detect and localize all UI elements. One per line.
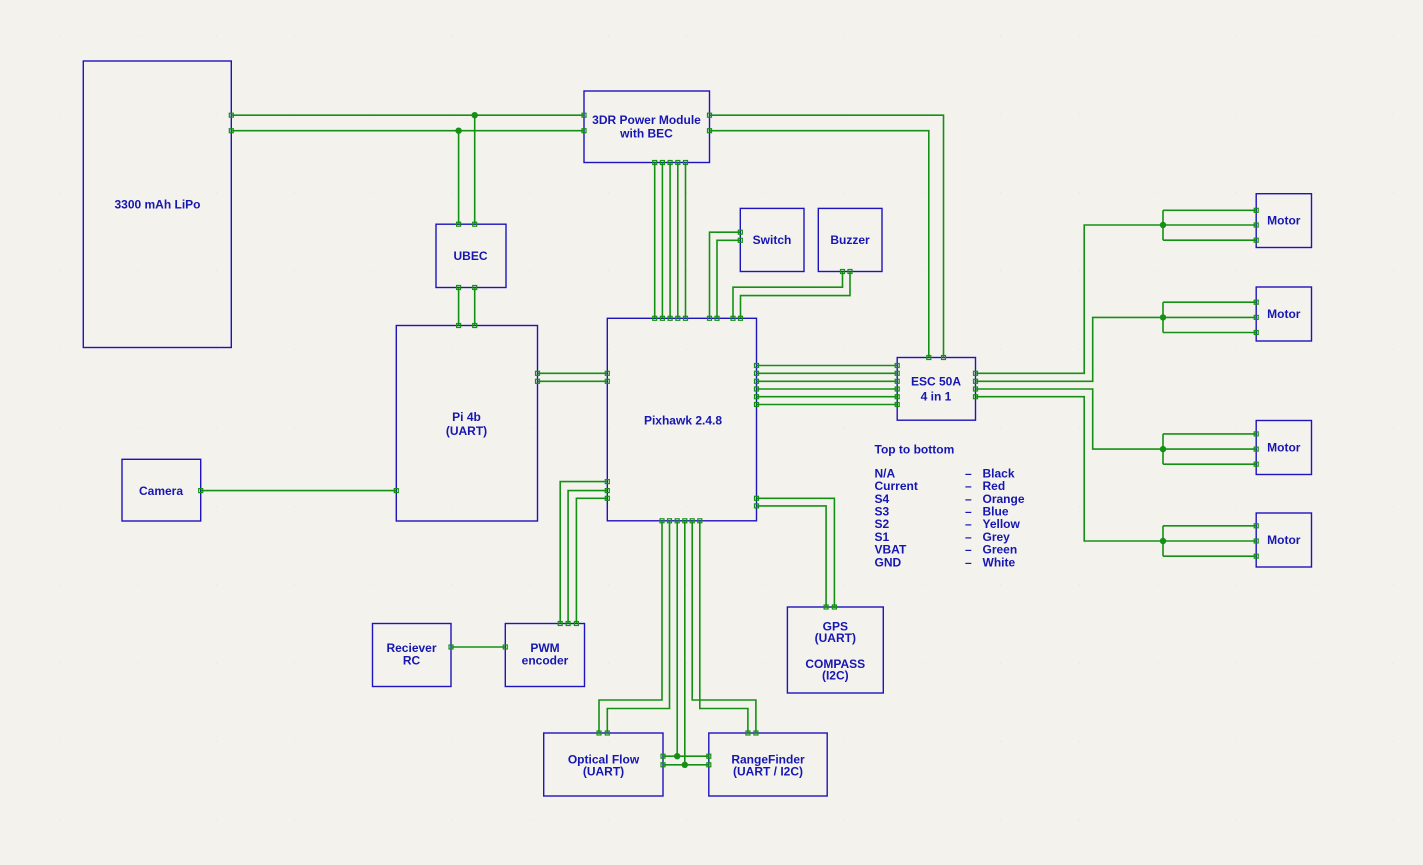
wire trunk to motor M2 middle pin [1163, 316, 1256, 318]
label: Optical Flow (UART) [568, 752, 640, 778]
pin of receiver [449, 645, 453, 649]
svg-text:Top to bottom: Top to bottom [875, 443, 955, 457]
switch box [740, 208, 804, 271]
wire trunk to motor M4 bottom pin [1163, 555, 1256, 557]
optical flow box [544, 733, 663, 796]
wire trunk to motor M3 top pin [1163, 433, 1256, 435]
svg-text:Motor: Motor [1267, 214, 1301, 228]
pins of motor M2 [1254, 300, 1258, 334]
buzzer box [818, 208, 882, 271]
wire Pixhawk bottom 6 to rangefinder [700, 521, 748, 733]
junction on battery+ bus [472, 112, 478, 118]
wire Pixhawk bottom 1 to optical flow [599, 521, 662, 733]
svg-text:Motor: Motor [1267, 441, 1301, 455]
wire Pixhawk to PWM encoder 1 [560, 482, 607, 624]
wire ESC to motor M4 [976, 397, 1164, 541]
svg-text:White: White [983, 555, 1016, 569]
power module box: 3DR Power Module with BEC [584, 91, 710, 163]
wire Pi 4b to Pixhawk UART (upper) [538, 372, 608, 374]
motor M4 trunk wire [1162, 526, 1164, 556]
svg-text:encoder: encoder [522, 654, 569, 668]
battery box: 3300 mAh LiPo [83, 61, 231, 348]
label: Switch [753, 233, 792, 247]
wire optical flow to rangefinder (upper) [663, 755, 709, 757]
GPS compass box [787, 607, 883, 693]
wire battery- to power module [231, 130, 584, 132]
wire Pi 4b to Pixhawk UART (lower) [538, 380, 608, 382]
wire UBEC to Pi 4b (left) [458, 288, 460, 326]
svg-text:Motor: Motor [1267, 307, 1301, 321]
wire switch pin 2 to Pixhawk [717, 240, 740, 318]
svg-text:Pi 4b: Pi 4b [452, 410, 481, 424]
svg-text:(UART / I2C): (UART / I2C) [733, 764, 803, 778]
camera box [122, 459, 201, 521]
pins of motor M3 [1254, 432, 1258, 466]
wire Pixhawk bottom 5 to rangefinder [692, 521, 756, 733]
pins of power module (bottom) [653, 161, 688, 165]
wire ESC to motor M2 [976, 317, 1164, 381]
motor M2 trunk wire [1162, 302, 1164, 332]
UBEC box [436, 224, 506, 287]
pins of PWM encoder [503, 622, 578, 650]
wire Pixhawk bottom 4 to I2C net [684, 521, 686, 765]
wire Pixhawk to PWM encoder 3 [576, 498, 607, 623]
wire Pixhawk to ESC row 3 [757, 380, 898, 382]
wire buzzer pin 2 to Pixhawk [741, 272, 851, 319]
pins of GPS [824, 605, 836, 609]
label: Buzzer [830, 233, 870, 247]
svg-text:(I2C): (I2C) [822, 668, 849, 682]
svg-text:Motor: Motor [1267, 533, 1301, 547]
svg-text:4 in 1: 4 in 1 [921, 390, 952, 404]
label: 3300 mAh LiPo [114, 198, 200, 212]
motor M4 box [1256, 513, 1311, 567]
pins of power module (left/right) [582, 113, 712, 133]
wire power module to ESC (inner) [710, 131, 929, 358]
pins of Pi 4b [394, 324, 539, 493]
wire Pixhawk to ESC row 6 [757, 404, 898, 406]
ESC box: ESC 50A 4 in 1 [897, 358, 975, 421]
label: ESC 50A 4 in 1 [911, 375, 961, 404]
wire Pixhawk to ESC row 1 [757, 365, 898, 367]
svg-text:–: – [965, 555, 972, 569]
legend: wire color key (Top to bottom) [875, 443, 1025, 570]
label: RangeFinder (UART / I2C) [731, 752, 805, 778]
motor M1 box [1256, 194, 1311, 248]
wire trunk to motor M1 middle pin [1163, 224, 1256, 226]
label: Motor 4 [1267, 533, 1301, 547]
motor M3 trunk wire [1162, 434, 1164, 464]
pins of Pixhawk (bottom) [660, 519, 702, 523]
wire battery+ to power module [231, 114, 584, 116]
wire power module pin 4 to Pixhawk [677, 163, 679, 319]
pins of motor M4 [1254, 524, 1258, 558]
pins of Pixhawk (top) [653, 316, 743, 320]
junction at motor M4 trunk [1160, 538, 1166, 544]
label: Pixhawk 2.4.8 [644, 414, 722, 428]
svg-text:RC: RC [403, 654, 421, 668]
label: GPS (UART) COMPASS (I2C) [805, 620, 865, 683]
wire trunk to motor M3 middle pin [1163, 448, 1256, 450]
motor M3 box [1256, 421, 1311, 475]
pins of Pixhawk (left) [605, 371, 609, 500]
RC receiver box [373, 624, 452, 687]
wire power module pin 5 to Pixhawk [685, 163, 687, 319]
svg-text:3300 mAh LiPo: 3300 mAh LiPo [114, 198, 200, 212]
label: Motor 2 [1267, 307, 1301, 321]
wire power module pin 2 to Pixhawk [661, 163, 663, 319]
wire bus to UBEC left pin [458, 131, 460, 225]
svg-text:with BEC: with BEC [619, 126, 673, 140]
junction at motor M3 trunk [1160, 446, 1166, 452]
junction at motor M1 trunk [1160, 222, 1166, 228]
pins of switch [738, 230, 742, 242]
wire bus to UBEC right pin [474, 115, 476, 224]
pins of motor M1 [1254, 208, 1258, 242]
pins of ESC (left) [895, 364, 899, 407]
wire power module pin 1 to Pixhawk [654, 163, 656, 319]
wire Pixhawk bottom 3 to I2C net [676, 521, 678, 756]
pins of ESC (right) [974, 371, 978, 398]
label: Reciever RC [386, 641, 436, 668]
svg-text:(UART): (UART) [583, 764, 624, 778]
pins of rangefinder [707, 731, 758, 767]
wire Pixhawk to ESC row 4 [757, 388, 898, 390]
svg-text:(UART): (UART) [815, 631, 856, 645]
wire switch pin 1 to Pixhawk [710, 232, 741, 318]
wire ESC to motor M3 [976, 389, 1164, 449]
pins of Pixhawk (right) [755, 364, 759, 508]
junction I2C lower [682, 762, 688, 768]
Pi 4b box [396, 326, 537, 522]
wire receiver to PWM encoder [451, 646, 505, 648]
pin of camera [199, 489, 203, 493]
wire Pixhawk to ESC row 5 [757, 396, 898, 398]
wire UBEC to Pi 4b (right) [474, 288, 476, 326]
wire optical flow to rangefinder (lower) [663, 764, 709, 766]
junction at motor M2 trunk [1160, 314, 1166, 320]
svg-text:Buzzer: Buzzer [830, 233, 870, 247]
junction I2C upper [674, 753, 680, 759]
wire Pixhawk to GPS (lower) [757, 506, 827, 607]
pins of optical flow [597, 731, 665, 767]
wire trunk to motor M4 middle pin [1163, 540, 1256, 542]
pins of buzzer [841, 270, 853, 274]
junction on battery- bus [455, 128, 461, 134]
pins of ESC (top) [927, 356, 946, 360]
wire trunk to motor M2 top pin [1163, 301, 1256, 303]
wire ESC to motor M1 [976, 225, 1164, 373]
label: UBEC [453, 249, 487, 263]
flight controller box: Pixhawk 2.4.8 [607, 318, 756, 521]
pins of battery (right) [229, 113, 233, 133]
svg-text:3DR Power Module: 3DR Power Module [592, 113, 701, 127]
wire power module to ESC (outer) [710, 115, 944, 357]
wire Pixhawk to PWM encoder 2 [568, 491, 607, 624]
svg-text:Camera: Camera [139, 484, 183, 498]
wire trunk to motor M1 top pin [1163, 209, 1256, 211]
svg-text:ESC 50A: ESC 50A [911, 375, 961, 389]
wire trunk to motor M3 bottom pin [1163, 463, 1256, 465]
svg-text:(UART): (UART) [446, 424, 487, 438]
svg-text:Pixhawk 2.4.8: Pixhawk 2.4.8 [644, 414, 722, 428]
pins of UBEC [457, 222, 477, 289]
motor M1 trunk wire [1162, 210, 1164, 240]
label: Camera [139, 484, 183, 498]
motor M2 box [1256, 287, 1311, 341]
wire power module pin 3 to Pixhawk [669, 163, 671, 319]
svg-text:Switch: Switch [753, 233, 792, 247]
label: 3DR Power Module with BEC [592, 113, 701, 140]
PWM encoder box [505, 624, 584, 687]
label: Motor 1 [1267, 214, 1301, 228]
wire buzzer pin 1 to Pixhawk [733, 272, 843, 319]
label: Motor 3 [1267, 441, 1301, 455]
svg-text:GND: GND [875, 555, 902, 569]
label: PWM encoder [522, 641, 569, 668]
wire trunk to motor M4 top pin [1163, 525, 1256, 527]
wire Pixhawk to GPS (upper) [757, 498, 835, 607]
wire trunk to motor M1 bottom pin [1163, 239, 1256, 241]
wire trunk to motor M2 bottom pin [1163, 332, 1256, 334]
wire Pixhawk bottom 2 to optical flow [607, 521, 669, 733]
label: Pi 4b (UART) [446, 410, 487, 438]
wire camera to Pi 4b [201, 490, 397, 492]
wire Pixhawk to ESC row 2 [757, 372, 898, 374]
svg-text:UBEC: UBEC [453, 249, 487, 263]
rangefinder box [709, 733, 827, 796]
